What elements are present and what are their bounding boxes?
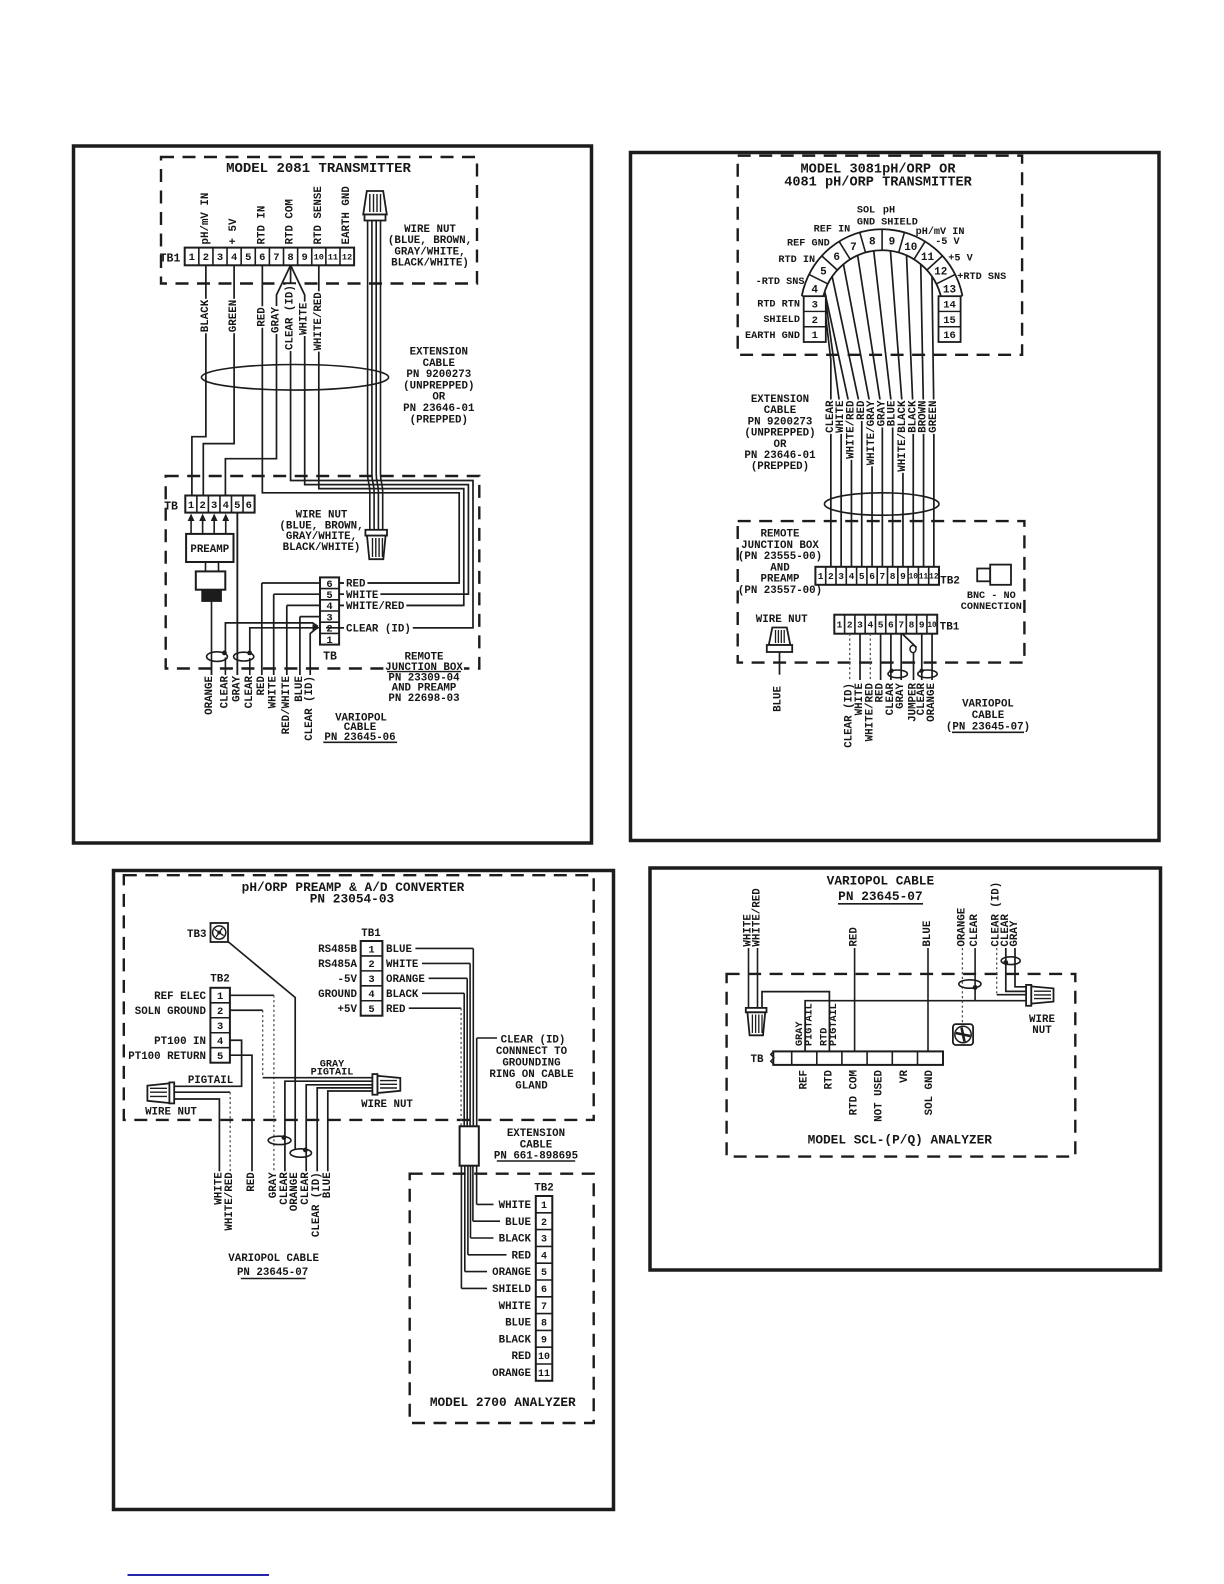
svg-text:WHITE: WHITE <box>299 302 311 335</box>
svg-text:VARIOPOL CABLE: VARIOPOL CABLE <box>827 874 935 889</box>
svg-text:PN 22698-03: PN 22698-03 <box>388 693 459 705</box>
svg-text:(BLUE, BROWN,: (BLUE, BROWN, <box>388 235 472 247</box>
svg-text:2: 2 <box>847 620 853 631</box>
svg-text:CABLE: CABLE <box>972 710 1005 722</box>
terminal block TB2 (2700) <box>536 1196 553 1381</box>
svg-text:PN 23645-07: PN 23645-07 <box>838 889 922 904</box>
label BLUE <box>923 920 933 948</box>
label BLUE <box>295 675 305 703</box>
svg-text:12: 12 <box>342 253 352 263</box>
BNC connector below preamp <box>205 562 207 571</box>
small cable ellipse (top right) <box>1001 957 1020 965</box>
svg-text:1: 1 <box>541 1201 547 1212</box>
left wire nut (panel 4) <box>746 1008 767 1012</box>
dashed enclosure: model 2700 analyzer <box>410 1174 594 1423</box>
wire RED from TB1-5 <box>880 634 882 680</box>
svg-text:+ 5V: + 5V <box>228 218 240 244</box>
svg-text:TB: TB <box>751 1054 764 1066</box>
wire REF ELEC to GRAY <box>230 994 274 996</box>
4-wire cable from wire nut 1 <box>368 221 370 530</box>
rtd pigtail <box>762 992 829 1052</box>
svg-text:SOLN GROUND: SOLN GROUND <box>135 1006 207 1018</box>
svg-text:TB2: TB2 <box>534 1183 553 1195</box>
svg-text:4081 pH/ORP TRANSMITTER: 4081 pH/ORP TRANSMITTER <box>784 176 972 191</box>
svg-text:CABLE: CABLE <box>520 1139 553 1151</box>
svg-text:VARIOPOL: VARIOPOL <box>962 699 1014 711</box>
terminal block TB (SCL) <box>773 1051 943 1065</box>
svg-text:NOT USED: NOT USED <box>874 1069 886 1121</box>
wires variopol into TB left <box>262 582 320 584</box>
label CLEAR <box>245 675 255 709</box>
clear (id) wire <box>476 1038 478 1126</box>
big cable ellipse <box>959 980 981 988</box>
label GRAY <box>877 400 887 428</box>
wire PT100 IN to pigtail <box>175 1040 242 1086</box>
svg-text:SHIELD: SHIELD <box>492 1284 531 1296</box>
svg-text:TB: TB <box>164 501 178 514</box>
svg-text:1: 1 <box>368 944 374 956</box>
svg-text:RS485B: RS485B <box>318 944 357 956</box>
wire from TB3 (orange) <box>228 942 295 1150</box>
svg-text:RED: RED <box>256 307 268 327</box>
svg-text:5: 5 <box>541 1268 547 1279</box>
svg-text:5: 5 <box>820 267 827 279</box>
svg-text:7: 7 <box>541 1302 547 1313</box>
svg-text:2: 2 <box>812 315 818 327</box>
svg-text:REF IN: REF IN <box>814 225 851 236</box>
svg-text:PN 9200273: PN 9200273 <box>406 369 471 381</box>
label WHITE/RED <box>225 1171 235 1231</box>
svg-text:BLUE: BLUE <box>505 1217 531 1229</box>
svg-text:pH: pH <box>883 206 895 217</box>
svg-text:CONNNECT TO: CONNNECT TO <box>496 1046 568 1058</box>
wire RED from TB1-6 <box>262 265 459 583</box>
svg-text:CABLE: CABLE <box>423 358 456 370</box>
svg-text:ORANGE: ORANGE <box>956 907 968 946</box>
svg-text:2: 2 <box>217 1006 223 1018</box>
label CLEAR (ID) <box>992 881 1002 948</box>
label CLEAR <box>301 1171 311 1205</box>
wire WHITE/BLACK (cell 9 to TB2-9) <box>890 251 902 567</box>
svg-text:4: 4 <box>217 1036 223 1048</box>
svg-text:2: 2 <box>203 252 209 264</box>
svg-text:WHITE/RED: WHITE/RED <box>313 292 325 351</box>
svg-text:BLUE: BLUE <box>386 944 412 956</box>
label GRAY <box>232 675 242 703</box>
svg-text:4: 4 <box>231 252 237 264</box>
left column cells 1-3 <box>804 296 826 342</box>
svg-text:BLACK: BLACK <box>386 989 419 1001</box>
svg-text:(PN 23557-00): (PN 23557-00) <box>738 585 822 597</box>
svg-text:EXTENSION: EXTENSION <box>410 347 468 359</box>
svg-text:(PREPPED): (PREPPED) <box>751 461 809 473</box>
svg-text:PIGTAIL: PIGTAIL <box>829 1003 840 1046</box>
svg-text:BLACK/WHITE): BLACK/WHITE) <box>391 258 469 270</box>
svg-text:2: 2 <box>368 959 374 971</box>
wire BLACK from TB1-2 <box>192 265 206 495</box>
label CLEAR <box>970 913 980 947</box>
svg-text:1: 1 <box>837 620 843 631</box>
svg-text:VR: VR <box>899 1069 911 1082</box>
svg-text:RED: RED <box>512 1250 532 1262</box>
svg-text:PT100 IN: PT100 IN <box>154 1036 206 1048</box>
wires through cable ellipses <box>890 634 892 680</box>
svg-text:RED/WHITE: RED/WHITE <box>281 675 293 734</box>
svg-text:GRAY: GRAY <box>231 675 243 701</box>
svg-text:BLUE: BLUE <box>772 685 784 711</box>
label GRAY <box>1010 920 1020 948</box>
svg-text:WHITE: WHITE <box>499 1200 532 1212</box>
wire ORANGE from BNC <box>211 601 213 678</box>
svg-text:9: 9 <box>541 1335 547 1346</box>
svg-text:REMOTE: REMOTE <box>761 529 800 541</box>
svg-text:CLEAR: CLEAR <box>219 675 231 708</box>
svg-text:RING ON CABLE: RING ON CABLE <box>489 1069 574 1081</box>
svg-text:CONNECTION: CONNECTION <box>961 602 1022 613</box>
label RED <box>257 306 267 327</box>
svg-text:WHITE/RED: WHITE/RED <box>752 888 764 947</box>
svg-text:REF: REF <box>798 1070 810 1089</box>
svg-text:(UNPREPPED): (UNPREPPED) <box>403 380 474 392</box>
TB3 ground screw <box>211 923 229 942</box>
svg-text:BLACK: BLACK <box>200 299 212 332</box>
svg-text:WHITE/RED: WHITE/RED <box>346 601 405 613</box>
vertical block TB (junction box right) <box>320 577 339 644</box>
wire BLACK to TB2-3 <box>470 1166 472 1238</box>
wire BLUE from nut <box>779 652 781 675</box>
label CLEAR <box>220 675 230 709</box>
svg-text:WHITE: WHITE <box>499 1301 532 1313</box>
svg-text:+5 V: +5 V <box>948 253 973 264</box>
label CLEAR <box>917 682 926 716</box>
label BLUE <box>323 1171 333 1199</box>
svg-text:RTD IN: RTD IN <box>256 206 268 245</box>
svg-text:8: 8 <box>541 1319 547 1330</box>
svg-text:OR: OR <box>432 392 445 404</box>
svg-text:WIRE NUT: WIRE NUT <box>145 1106 197 1118</box>
svg-text:-5V: -5V <box>338 974 358 986</box>
label RED <box>850 926 860 947</box>
label WHITE <box>836 400 846 434</box>
wire CLEAR (cell 2 to TB2-2) <box>826 318 831 567</box>
svg-text:7: 7 <box>273 252 279 264</box>
svg-text:pH/mV IN: pH/mV IN <box>200 193 212 245</box>
svg-text:-RTD SNS: -RTD SNS <box>756 277 805 288</box>
svg-text:REF ELEC: REF ELEC <box>154 991 206 1003</box>
svg-text:CLEAR (ID): CLEAR (ID) <box>346 623 411 635</box>
svg-text:RTD COM: RTD COM <box>285 199 297 244</box>
svg-text:6: 6 <box>869 571 875 582</box>
wires clear(id)/clear/gray into right nut <box>996 948 998 995</box>
pigtail wires white / white-red <box>174 1091 230 1093</box>
svg-text:1: 1 <box>189 252 195 264</box>
dashed enclosure: MODEL 2081 TRANSMITTER <box>161 157 477 284</box>
wire WHITE/RED from TB1-4 <box>869 634 871 680</box>
wire nut 2 (gray pigtail) <box>372 1074 377 1095</box>
panel 1 outer border <box>74 146 592 843</box>
label WHITE <box>269 675 279 709</box>
svg-text:GND: GND <box>857 218 875 229</box>
wire nut 1 (preamp pigtail) <box>147 1083 169 1103</box>
terminal block TB1 (preamp) <box>361 941 383 1016</box>
svg-text:-5 V: -5 V <box>935 237 960 248</box>
panel 2 outer border <box>631 153 1160 841</box>
svg-text:BLACK/WHITE): BLACK/WHITE) <box>283 542 361 554</box>
svg-text:GROUND: GROUND <box>318 989 357 1001</box>
svg-text:3: 3 <box>217 1021 223 1033</box>
svg-text:NUT: NUT <box>1032 1025 1052 1037</box>
wires from gray pigtail nut <box>285 1081 373 1172</box>
wire nut 2 (mid) <box>365 530 387 536</box>
svg-text:+RTD SNS: +RTD SNS <box>957 272 1006 283</box>
remote junction box note <box>384 648 464 704</box>
svg-text:5: 5 <box>245 252 251 264</box>
svg-text:+5V: +5V <box>338 1004 358 1016</box>
wire WHITE (cell 3 to TB2-3) <box>826 302 841 567</box>
svg-text:PN 23054-03: PN 23054-03 <box>310 892 395 907</box>
svg-text:WIRE NUT: WIRE NUT <box>756 614 808 626</box>
wire from TB-5 down (GRAY) <box>236 513 238 678</box>
label WHITE/RED <box>314 291 324 351</box>
wire RED to TB2-4 <box>467 1166 469 1255</box>
label ORANGE <box>928 682 937 723</box>
svg-text:13: 13 <box>943 284 957 296</box>
wire nut 1 (top) <box>363 191 387 215</box>
label WHITE <box>744 913 754 947</box>
svg-text:REF GND: REF GND <box>787 239 830 250</box>
label BLACK <box>908 400 918 434</box>
label CLEAR (ID) <box>312 1171 322 1238</box>
svg-text:6: 6 <box>541 1285 547 1296</box>
svg-text:CLEAR: CLEAR <box>244 675 256 708</box>
label GREEN <box>229 299 239 333</box>
svg-text:TB1: TB1 <box>361 928 381 940</box>
svg-text:(UNPREPPED): (UNPREPPED) <box>744 428 815 440</box>
svg-text:TB3: TB3 <box>187 929 206 941</box>
label CLEAR (ID) <box>286 284 296 351</box>
wire labels TB right side <box>339 582 459 584</box>
svg-text:GLAND: GLAND <box>515 1080 548 1092</box>
dashed enclosure: preamp & A/D converter <box>124 875 594 1120</box>
svg-text:GRAY: GRAY <box>271 307 283 333</box>
svg-text:CLEAR (ID): CLEAR (ID) <box>304 676 316 741</box>
right column cells 14-16 <box>939 296 961 342</box>
svg-text:ORANGE: ORANGE <box>492 1368 531 1380</box>
wire RED to TB <box>854 948 856 1051</box>
svg-text:1: 1 <box>818 571 824 582</box>
horseshoe terminal arch outline <box>802 229 963 296</box>
svg-text:6: 6 <box>259 252 265 264</box>
extension cable jacket rect <box>460 1126 479 1165</box>
svg-text:VARIOPOL CABLE: VARIOPOL CABLE <box>228 1253 319 1265</box>
svg-text:TB2: TB2 <box>940 576 960 588</box>
svg-text:PN 9200273: PN 9200273 <box>748 416 813 428</box>
svg-text:RED: RED <box>386 1004 406 1016</box>
svg-text:ORANGE: ORANGE <box>926 682 938 721</box>
terminal block TB1 (3081) <box>834 615 937 634</box>
terminal block TB1 (2081) <box>185 248 354 266</box>
svg-text:RTD: RTD <box>823 1069 835 1089</box>
cable jacket ellipses <box>207 652 228 662</box>
svg-text:4: 4 <box>849 571 855 582</box>
svg-text:4: 4 <box>867 620 873 631</box>
wire CLEAR to pigtail junction <box>974 948 976 1001</box>
svg-text:12: 12 <box>929 574 939 582</box>
svg-text:11: 11 <box>921 252 935 264</box>
svg-text:TB: TB <box>323 651 337 664</box>
svg-text:7: 7 <box>879 571 885 582</box>
svg-text:SOL: SOL <box>857 206 875 217</box>
footnote rule <box>128 1574 270 1576</box>
svg-text:RED: RED <box>849 927 861 947</box>
label ORANGE <box>958 907 968 948</box>
svg-text:WIRE NUT: WIRE NUT <box>404 224 456 236</box>
svg-text:6: 6 <box>246 500 252 512</box>
svg-text:2: 2 <box>541 1218 547 1229</box>
cable bundle ellipse <box>201 365 388 391</box>
label ORANGE <box>290 1171 300 1212</box>
label CLEAR (ID) <box>845 682 854 749</box>
label GRAY <box>272 306 282 334</box>
svg-text:PN 23645-07: PN 23645-07 <box>237 1267 308 1279</box>
svg-text:8: 8 <box>890 571 896 582</box>
svg-text:4: 4 <box>811 284 818 296</box>
svg-text:9: 9 <box>889 236 896 248</box>
label BROWN <box>919 400 929 434</box>
svg-text:TB1: TB1 <box>160 253 181 266</box>
svg-text:15: 15 <box>943 315 956 327</box>
radial dividers cells 4-13 <box>802 296 823 300</box>
label WHITE <box>215 1171 225 1205</box>
ground screw symbol <box>953 1024 973 1045</box>
wire SHIELD to TB2-6 <box>460 1166 462 1289</box>
label ORANGE <box>205 675 215 716</box>
svg-text:EARTH GND: EARTH GND <box>745 331 800 342</box>
svg-text:10: 10 <box>927 622 937 630</box>
svg-text:PREAMP: PREAMP <box>190 544 229 556</box>
label RED <box>857 400 867 421</box>
svg-text:RTD SENSE: RTD SENSE <box>313 186 325 245</box>
svg-text:4: 4 <box>541 1251 547 1262</box>
svg-text:10: 10 <box>314 253 324 263</box>
svg-text:PIGTAIL: PIGTAIL <box>804 1003 815 1046</box>
svg-text:MODEL SCL-(P/Q) ANALYZER: MODEL SCL-(P/Q) ANALYZER <box>808 1133 993 1148</box>
wire RED (cell 5 to TB2-5) <box>832 277 862 567</box>
cable ellipse <box>824 493 939 515</box>
svg-text:3: 3 <box>812 300 818 312</box>
wire SOLN GROUND / gray pigtail <box>230 1009 263 1011</box>
svg-text:1: 1 <box>188 500 194 512</box>
label GRAY <box>897 682 906 710</box>
BNC no connection symbol <box>977 569 990 582</box>
svg-text:11: 11 <box>328 253 338 263</box>
svg-text:CABLE: CABLE <box>764 405 797 417</box>
svg-text:9: 9 <box>919 620 925 631</box>
wire WHITE/GRAY (cell 6 to TB2-6) <box>843 264 872 566</box>
svg-text:BNC - NO: BNC - NO <box>967 591 1016 602</box>
label BLACK <box>201 299 211 333</box>
svg-text:3: 3 <box>368 974 374 986</box>
jumper loop <box>902 634 916 648</box>
svg-text:10: 10 <box>904 242 917 254</box>
svg-text:5: 5 <box>368 1004 374 1016</box>
svg-text:PIGTAIL: PIGTAIL <box>311 1068 354 1079</box>
svg-text:4: 4 <box>326 601 332 613</box>
svg-text:WHITE: WHITE <box>268 675 280 708</box>
svg-text:3: 3 <box>838 571 844 582</box>
wire BLACK (cell 10 to TB2-10) <box>907 256 914 567</box>
label WHITE/RED <box>866 682 875 742</box>
wire BLUE (cell 8 to TB2-8) <box>874 251 893 567</box>
svg-text:5: 5 <box>217 1051 223 1063</box>
label WHITE/RED <box>846 400 856 460</box>
wires white/white-red to left nut <box>748 948 750 1008</box>
svg-text:CLEAR (ID): CLEAR (ID) <box>501 1034 566 1046</box>
svg-text:WIRE NUT: WIRE NUT <box>361 1099 413 1111</box>
svg-text:1: 1 <box>326 635 332 647</box>
svg-text:11: 11 <box>919 574 929 582</box>
svg-text:GRAY: GRAY <box>1009 920 1021 946</box>
svg-text:7: 7 <box>898 620 904 631</box>
terminal block TB (upper, junction box) <box>185 496 254 513</box>
svg-text:3: 3 <box>541 1235 547 1246</box>
svg-text:RS485A: RS485A <box>318 959 357 971</box>
svg-text:10: 10 <box>909 574 919 582</box>
svg-text:1: 1 <box>812 330 818 342</box>
svg-text:SHIELD: SHIELD <box>881 218 918 229</box>
svg-text:GROUNDING: GROUNDING <box>502 1057 560 1069</box>
wire BLUE to TB <box>927 948 929 1051</box>
svg-text:CLEAR: CLEAR <box>969 914 981 947</box>
wire PT100 RETURN to RED <box>230 1055 252 1172</box>
right wire nut (panel 4) <box>1026 985 1031 1006</box>
svg-text:8: 8 <box>869 236 876 248</box>
svg-text:GRAY/WHITE,: GRAY/WHITE, <box>394 246 465 258</box>
svg-text:SOL GND: SOL GND <box>924 1069 936 1115</box>
svg-text:2: 2 <box>199 500 205 512</box>
clear wires joining arrow into TB-2 <box>225 623 318 653</box>
svg-text:JUNCTION BOX: JUNCTION BOX <box>741 540 819 552</box>
wire WHITE/RED from TB1-10 <box>319 265 464 605</box>
svg-text:EXTENSION: EXTENSION <box>751 394 809 406</box>
svg-text:8: 8 <box>909 620 915 631</box>
preamp box <box>186 534 233 562</box>
svg-text:RED: RED <box>246 1172 258 1192</box>
cable jacket ellipses (variopol 3) <box>268 1136 291 1144</box>
gray pigtail (panel 4) <box>805 1001 1026 1052</box>
svg-text:6: 6 <box>833 252 840 264</box>
wire GRAY from TB1-8 <box>225 265 290 495</box>
label CLEAR (ID) <box>305 675 315 742</box>
svg-text:WHITE: WHITE <box>386 959 419 971</box>
svg-text:5: 5 <box>234 500 240 512</box>
wire CLEAR (ID) from TB1-2 <box>849 634 851 680</box>
svg-text:PIGTAIL: PIGTAIL <box>188 1075 233 1087</box>
dashed enclosure: 3081/4081 transmitter <box>738 156 1022 355</box>
svg-text:AND: AND <box>770 562 790 574</box>
wire GRAY (cell 7 to TB2-7) <box>858 256 883 567</box>
svg-text:5: 5 <box>859 571 865 582</box>
label WHITE <box>300 302 310 336</box>
svg-text:9: 9 <box>900 571 906 582</box>
wire WHITE from TB1-3 <box>859 634 861 680</box>
svg-text:RED: RED <box>256 675 268 695</box>
svg-text:MODEL 2081 TRANSMITTER: MODEL 2081 TRANSMITTER <box>226 161 411 177</box>
svg-text:2: 2 <box>828 571 834 582</box>
terminal block TB2 (preamp) <box>210 988 230 1063</box>
svg-text:BLACK: BLACK <box>499 1334 532 1346</box>
label GREEN <box>929 400 939 434</box>
